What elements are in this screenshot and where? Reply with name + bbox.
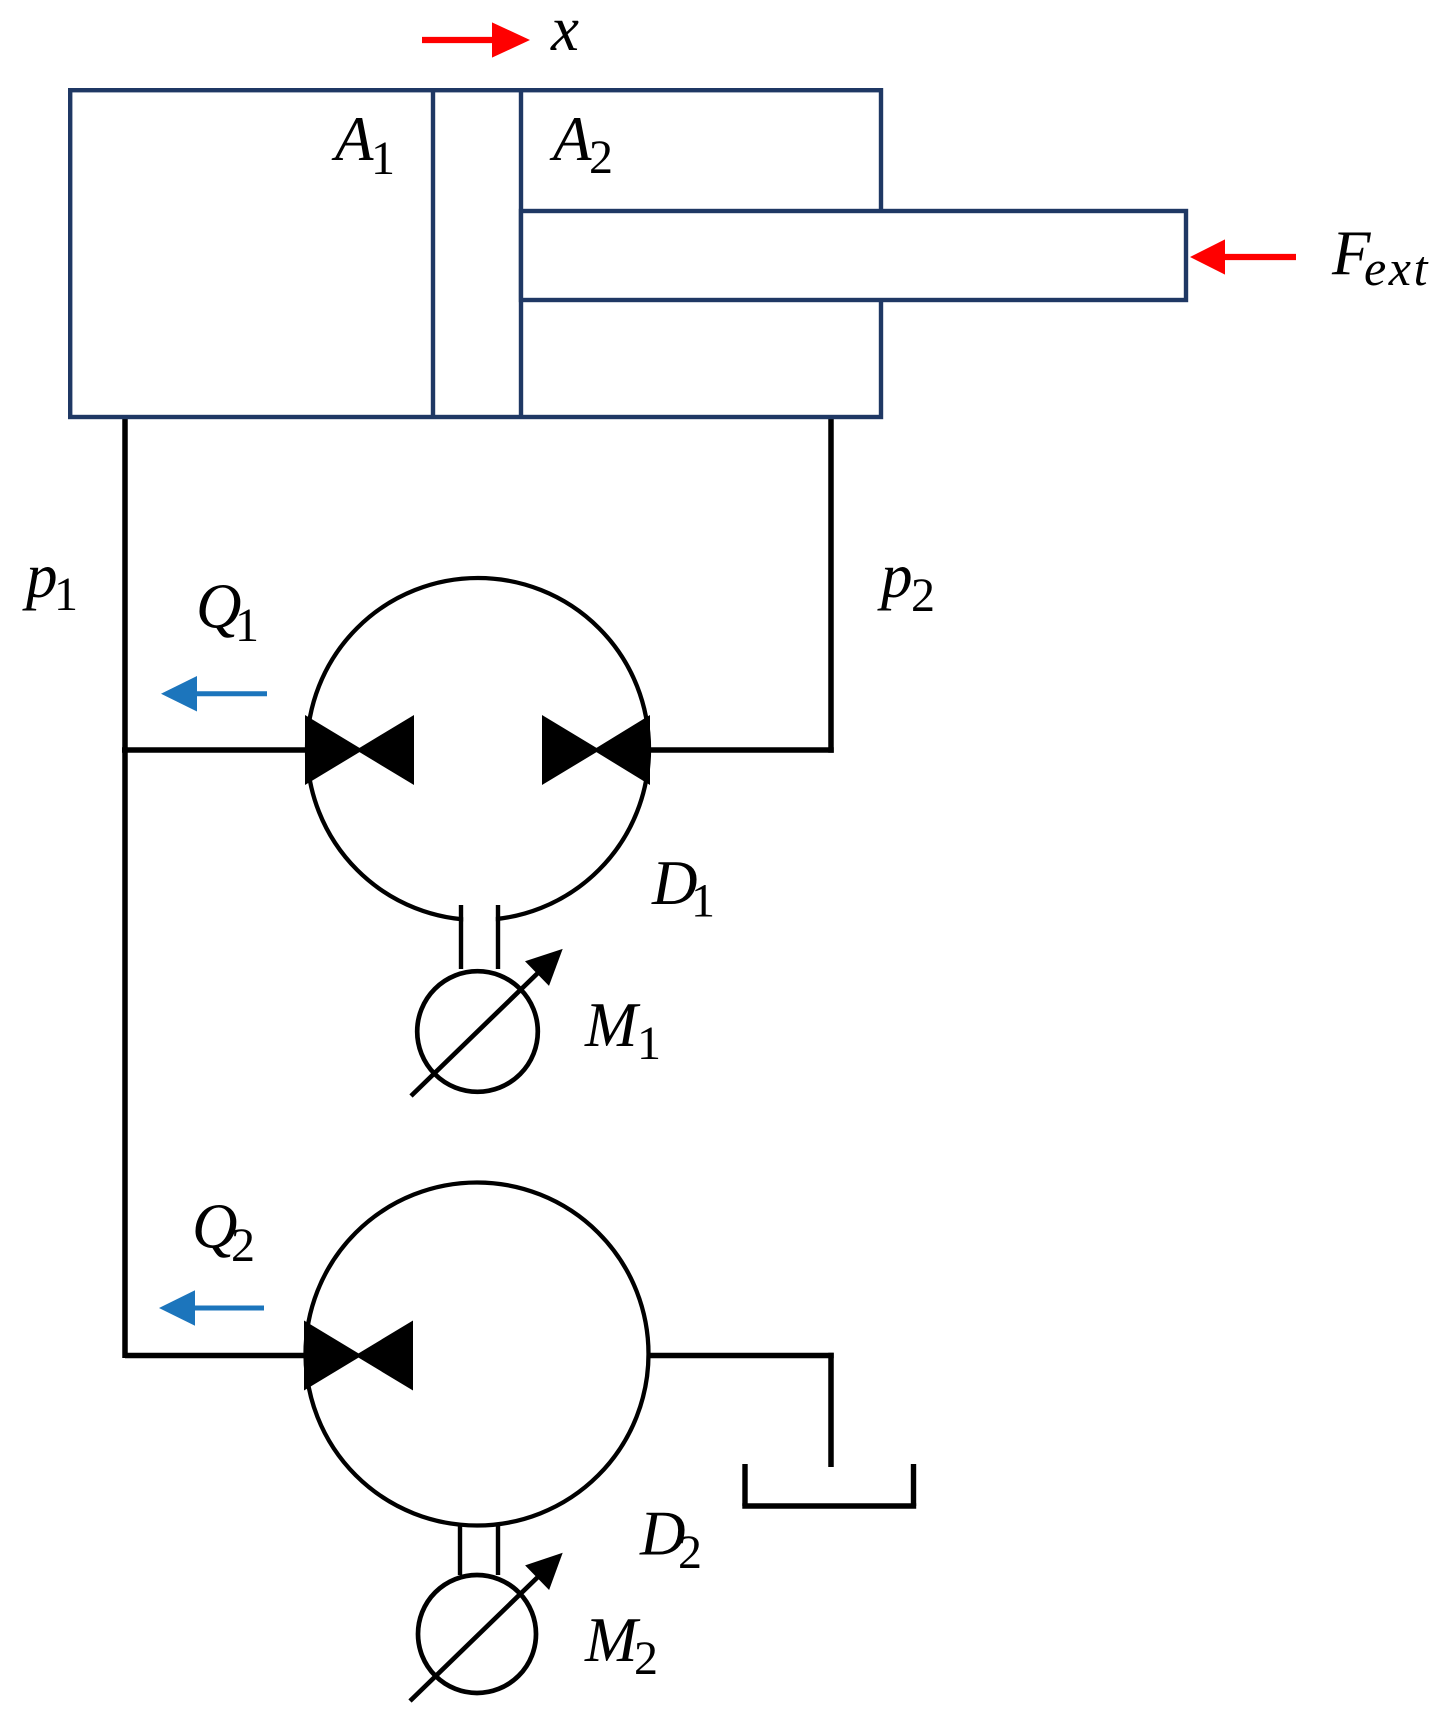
- svg-text:1: 1: [54, 568, 78, 621]
- label F_ext: [1331, 218, 1430, 296]
- wire tank drop vertical: [828, 1353, 834, 1467]
- motor M2 variable arrow: [410, 1553, 563, 1701]
- displacement arrow x: [422, 22, 530, 57]
- label M2: [584, 1605, 658, 1685]
- svg-text:M: M: [584, 990, 641, 1060]
- label Q1: [196, 572, 259, 653]
- pump D1 right bowtie: [542, 715, 600, 785]
- svg-text:A: A: [549, 104, 592, 174]
- wire p1 to pump D1 left port: [122, 747, 310, 753]
- pump D2 bowtie: [304, 1321, 362, 1391]
- svg-text:1: 1: [637, 1017, 661, 1070]
- svg-text:A: A: [331, 104, 374, 174]
- motor M1 variable arrow: [411, 949, 563, 1096]
- label D2: [639, 1499, 702, 1580]
- label p1: [22, 541, 78, 621]
- wire p1 to pump D2 left port: [125, 1353, 310, 1359]
- tank: [742, 1464, 916, 1506]
- label Q2: [192, 1192, 255, 1273]
- shaft D1 to M1: [461, 905, 498, 969]
- svg-text:ext: ext: [1364, 240, 1430, 296]
- svg-text:M: M: [584, 1605, 641, 1675]
- motor M2 circle: [418, 1575, 536, 1693]
- motor M1 circle: [417, 971, 538, 1092]
- flow arrow Q1: [161, 676, 267, 712]
- piston left face: [431, 88, 435, 419]
- cylinder barrel: [70, 90, 881, 417]
- flow arrow Q2: [159, 1290, 264, 1326]
- svg-text:2: 2: [634, 1632, 658, 1685]
- wire p2 vertical line: [828, 417, 834, 753]
- svg-text:2: 2: [911, 569, 935, 622]
- svg-text:1: 1: [371, 132, 395, 185]
- piston rod: [521, 211, 1186, 300]
- label p2: [877, 541, 935, 622]
- svg-text:1: 1: [235, 599, 259, 652]
- wire pump D1 right port to p2: [646, 747, 834, 753]
- wire p1 vertical line: [122, 417, 128, 1358]
- pump D1 left bowtie: [305, 715, 363, 785]
- force arrow F_ext: [1190, 239, 1296, 274]
- svg-text:2: 2: [589, 131, 613, 184]
- shaft D2 to M2: [460, 1524, 498, 1575]
- piston right face: [519, 88, 523, 419]
- label A2: [549, 104, 613, 184]
- svg-text:p: p: [877, 541, 913, 611]
- svg-text:2: 2: [231, 1219, 255, 1272]
- pump/motor unit D1 circle: [307, 578, 649, 920]
- svg-text:2: 2: [678, 1526, 702, 1579]
- label M1: [584, 990, 661, 1070]
- label A1: [331, 104, 395, 185]
- label D1: [651, 848, 715, 928]
- svg-text:x: x: [550, 0, 579, 64]
- pump/motor unit D2 circle: [306, 1183, 649, 1526]
- svg-text:1: 1: [691, 875, 715, 928]
- wire pump D2 right port to tank drop: [646, 1353, 834, 1359]
- svg-text:p: p: [22, 541, 58, 611]
